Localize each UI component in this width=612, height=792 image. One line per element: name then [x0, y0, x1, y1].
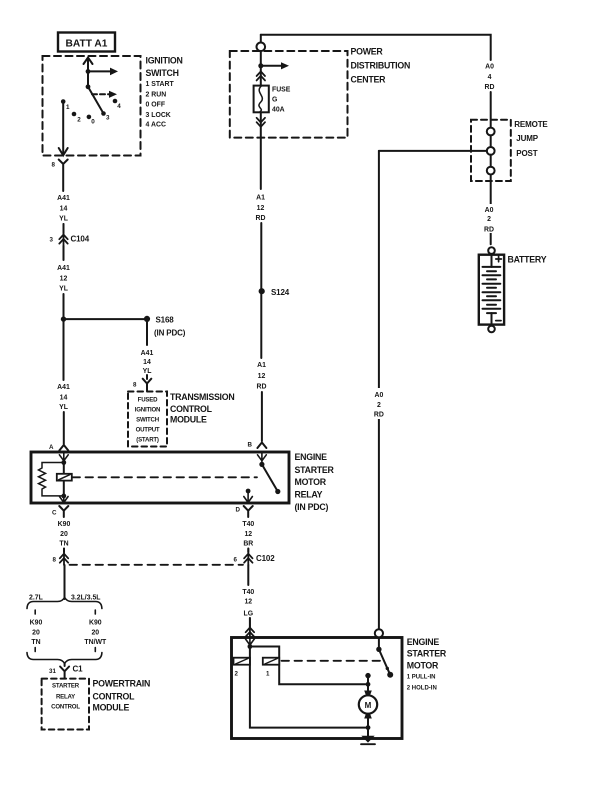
node: coil top junction — [61, 460, 66, 465]
resistor (relay shunt) — [39, 463, 64, 496]
svg-text:YL: YL — [59, 404, 68, 411]
svg-text:8: 8 — [53, 557, 57, 564]
contact 1 — [61, 99, 66, 104]
wire: junction to pull-in winding — [250, 647, 366, 685]
relay pin C exit arrow — [60, 496, 69, 503]
starter switch arm — [379, 649, 390, 675]
wire label A41 14 YL (lower) — [57, 384, 70, 411]
svg-text:1: 1 — [266, 671, 270, 678]
wire through fuse connectors — [260, 66, 262, 86]
relay pin B entry arrow — [258, 453, 267, 465]
svg-text:(START): (START) — [136, 437, 159, 444]
node: motor ground junction — [366, 725, 371, 730]
pull-in winding 1 — [263, 658, 279, 665]
svg-text:A41: A41 — [57, 195, 70, 202]
svg-text:RD: RD — [484, 226, 494, 233]
svg-text:14: 14 — [143, 359, 151, 366]
node: switch feed junction — [86, 69, 91, 74]
svg-text:CONTROL: CONTROL — [170, 404, 213, 414]
svg-text:2: 2 — [377, 402, 381, 409]
connector chevrons at starter motor — [249, 618, 251, 637]
arrowhead down at box edge — [59, 148, 68, 155]
svg-text:M: M — [365, 701, 372, 710]
battery internal top lead — [491, 254, 493, 267]
svg-text:20: 20 — [60, 531, 68, 538]
svg-text:12: 12 — [244, 599, 252, 606]
wire into C102 left half — [63, 549, 65, 553]
wire: branch arrow right — [261, 65, 282, 67]
svg-text:A41: A41 — [57, 384, 70, 391]
connector Y at relay A — [59, 445, 68, 451]
ground G1 — [361, 736, 374, 743]
node: splice to S168 — [61, 316, 66, 321]
svg-text:2 HOLD-IN: 2 HOLD-IN — [407, 686, 437, 692]
dashed armature link — [73, 476, 258, 478]
svg-text:A1: A1 — [256, 195, 265, 202]
contact position labels — [66, 103, 121, 126]
wire: battery stud into switch — [378, 637, 380, 649]
relay pin A entry arrow — [59, 453, 68, 463]
engine split bottom brace — [27, 653, 102, 664]
svg-text:DISTRIBUTION: DISTRIBUTION — [351, 61, 411, 71]
connector C102 pin 8 chevrons — [63, 549, 65, 566]
svg-text:RD: RD — [256, 215, 266, 222]
svg-text:1 START: 1 START — [146, 81, 175, 88]
svg-text:TN: TN — [59, 541, 68, 548]
remote jump post dashed box — [471, 120, 511, 181]
jump post label — [514, 120, 548, 158]
wire: motor to ground — [367, 719, 369, 739]
svg-text:1 PULL-IN: 1 PULL-IN — [407, 675, 436, 681]
wire label A41 12 YL — [57, 265, 70, 293]
svg-text:A0: A0 — [374, 392, 383, 399]
hold-in winding 2 — [234, 658, 250, 665]
wire: down to remote jump post — [490, 92, 492, 128]
svg-text:14: 14 — [60, 205, 68, 212]
svg-text:BATTERY: BATTERY — [508, 254, 547, 264]
contact 4 — [113, 99, 118, 104]
svg-text:FUSE: FUSE — [272, 87, 291, 94]
BATT A1 feed box — [58, 33, 115, 52]
connector 8 at TCM — [143, 379, 152, 391]
wire label A0 4 RD — [485, 64, 495, 92]
svg-text:RD: RD — [374, 412, 384, 419]
svg-text:MOTOR: MOTOR — [295, 477, 327, 487]
svg-text:(IN PDC): (IN PDC) — [295, 502, 329, 512]
node: motor terminal upper — [365, 673, 370, 678]
svg-text:CONTROL: CONTROL — [93, 691, 136, 701]
svg-text:LG: LG — [244, 611, 254, 618]
relay pin D exit arrow — [244, 491, 253, 503]
svg-text:4: 4 — [117, 103, 121, 110]
svg-text:20: 20 — [91, 630, 99, 637]
svg-text:K90: K90 — [58, 521, 71, 528]
connector Y below relay D — [244, 506, 253, 517]
svg-text:A41: A41 — [141, 350, 154, 357]
svg-text:2: 2 — [487, 216, 491, 223]
svg-text:2.7L: 2.7L — [29, 595, 43, 602]
wire label T40 12 BR — [242, 521, 254, 548]
svg-text:12: 12 — [257, 205, 265, 212]
svg-text:BATT A1: BATT A1 — [66, 39, 108, 50]
node S168 — [144, 316, 150, 322]
svg-text:14: 14 — [60, 394, 68, 401]
svg-text:T40: T40 — [242, 589, 254, 596]
svg-text:SWITCH: SWITCH — [136, 417, 159, 424]
transmission control module dashed box — [128, 392, 167, 447]
wire: C102 down to starter — [247, 565, 249, 585]
C102 connector dashed joint line — [70, 564, 244, 566]
wire: down to relay terminal B — [261, 392, 263, 441]
svg-text:ENGINE: ENGINE — [295, 452, 328, 462]
node: relay switch pivot — [259, 462, 264, 467]
PCM circuit function text — [51, 683, 80, 711]
svg-text:31: 31 — [49, 668, 56, 675]
svg-text:G: G — [272, 97, 277, 104]
wire: top feed from PDC to right column — [261, 35, 491, 60]
ignition switch S1 dashed box — [43, 56, 141, 156]
engine split top brace — [27, 597, 102, 608]
connector Y at relay B — [257, 443, 266, 449]
svg-text:YL: YL — [59, 286, 68, 293]
svg-text:SWITCH: SWITCH — [146, 68, 179, 78]
svg-text:FUSED: FUSED — [138, 397, 158, 404]
svg-text:A1: A1 — [257, 362, 266, 369]
svg-text:TN/WT: TN/WT — [84, 639, 107, 646]
svg-text:12: 12 — [244, 531, 252, 538]
svg-text:2: 2 — [77, 117, 81, 124]
connector C104 double chevron — [63, 224, 65, 246]
svg-text:STARTER: STARTER — [407, 649, 447, 659]
svg-text:3 LOCK: 3 LOCK — [146, 112, 171, 119]
wire between studs — [490, 135, 492, 147]
svg-text:RD: RD — [485, 84, 495, 91]
svg-text:8: 8 — [52, 162, 56, 169]
TCM label — [170, 392, 234, 425]
wire: down to relay terminal A — [63, 412, 65, 444]
node: relay switch arm end — [275, 489, 280, 494]
contact 3 — [101, 111, 106, 116]
jump post stud 1 — [487, 128, 495, 136]
branch stub dashes (top) — [35, 610, 95, 614]
svg-text:MOTOR: MOTOR — [407, 661, 439, 671]
svg-text:MODULE: MODULE — [93, 702, 130, 712]
svg-text:(IN PDC): (IN PDC) — [154, 329, 186, 338]
svg-text:T40: T40 — [242, 521, 254, 528]
wire: circle to fuse node — [260, 51, 262, 66]
svg-text:4 ACC: 4 ACC — [146, 122, 166, 129]
motor M1 — [359, 695, 377, 713]
node: relay pin D contact — [246, 489, 251, 494]
connector C102 pin 6 chevrons — [247, 549, 249, 566]
node: motor terminal lower — [366, 682, 371, 687]
svg-text:JUMP: JUMP — [516, 134, 538, 143]
dashed ACC arrow — [92, 93, 110, 95]
svg-text:A: A — [49, 444, 54, 451]
node: switch wiper pivot — [86, 84, 91, 89]
svg-text:POWER: POWER — [351, 47, 384, 57]
powertrain control module dashed box — [42, 679, 89, 730]
wire label K90 20 TN/WT (3.2L/3.5L) — [84, 620, 107, 646]
wire segment above C104 — [63, 224, 65, 233]
svg-text:MODULE: MODULE — [170, 415, 207, 425]
svg-text:8: 8 — [133, 382, 137, 389]
svg-text:IGNITION: IGNITION — [146, 56, 183, 66]
svg-text:POST: POST — [516, 149, 537, 158]
svg-text:S124: S124 — [271, 288, 290, 297]
svg-text:1: 1 — [66, 104, 70, 111]
wire: C102 down to engine split — [64, 565, 66, 599]
motor brush upper — [364, 691, 372, 697]
svg-text:A0: A0 — [485, 64, 494, 71]
wire: battery feed stub above PDC — [260, 35, 262, 43]
arrowhead up at BATT A1 — [84, 58, 93, 65]
svg-text:YL: YL — [143, 368, 152, 375]
battery plus mark — [496, 256, 502, 262]
wire: down to splice junction — [63, 294, 65, 380]
relay label — [295, 452, 335, 512]
battery internal bottom lead — [491, 313, 493, 325]
node S124 — [259, 288, 265, 294]
svg-text:TRANSMISSION: TRANSMISSION — [170, 392, 234, 402]
wire label A41 14 YL (TCM branch) — [141, 350, 154, 375]
terminal circle on starter box top — [375, 629, 383, 637]
wire label K90 20 TN — [58, 521, 71, 548]
battery negative terminal circle — [488, 326, 495, 333]
connector C1 pin 31 — [60, 667, 69, 678]
battery case — [479, 255, 504, 325]
svg-text:REMOTE: REMOTE — [514, 120, 548, 129]
svg-text:K90: K90 — [89, 620, 102, 627]
PCM label — [93, 678, 151, 712]
node: starter switch pivot — [376, 647, 381, 652]
wire: splice branch to S168 — [64, 318, 148, 320]
node: starter switch contact — [387, 672, 393, 678]
wire: starter feed down — [378, 151, 380, 630]
svg-text:6: 6 — [234, 557, 238, 564]
battery positive terminal circle — [488, 247, 495, 254]
wire label A0 2 RD (starter feed) — [371, 388, 387, 419]
connector 8 (ignition switch) — [59, 160, 68, 192]
starter motor label — [407, 637, 447, 692]
dashed solenoid plunger link — [282, 660, 383, 662]
ignition switch label — [146, 56, 183, 129]
svg-text:OUTPUT: OUTPUT — [136, 427, 160, 434]
power distribution center dashed box — [230, 51, 348, 138]
contact 2 — [72, 112, 77, 117]
svg-text:0: 0 — [91, 119, 95, 126]
battery minus mark — [496, 320, 501, 322]
svg-text:STARTER: STARTER — [52, 683, 80, 690]
wire label A1 12 RD (lower) — [257, 362, 267, 391]
wire: junction through hold-in winding down — [250, 647, 366, 728]
wire into C102 right half — [247, 549, 249, 553]
svg-text:BR: BR — [243, 541, 253, 548]
svg-text:2 RUN: 2 RUN — [146, 91, 167, 98]
battery plates — [483, 267, 501, 313]
svg-text:C102: C102 — [256, 554, 275, 563]
svg-text:3: 3 — [106, 115, 110, 122]
wire: stud to battery — [490, 175, 492, 245]
wire label A41 14 YL — [57, 195, 70, 223]
svg-text:CONTROL: CONTROL — [51, 704, 80, 711]
wire: RUN output arrow — [88, 70, 111, 72]
wire: merge down to C1 — [64, 664, 66, 666]
PDC label — [351, 47, 411, 85]
svg-text:3: 3 — [50, 237, 54, 244]
svg-text:C: C — [52, 510, 57, 517]
wire into starter connector — [249, 618, 251, 628]
svg-text:RD: RD — [257, 384, 267, 391]
connector Y below relay C — [59, 506, 68, 517]
wire: down to S124 — [260, 223, 262, 358]
svg-text:12: 12 — [60, 276, 68, 283]
svg-text:K90: K90 — [30, 620, 43, 627]
motor brush lower — [364, 713, 372, 719]
node: winding feed junction — [248, 644, 253, 649]
terminal circle at PDC top — [257, 43, 266, 52]
wire: motor terminal to brush — [367, 676, 369, 691]
svg-text:YL: YL — [59, 216, 68, 223]
fuse G 40A — [254, 86, 269, 113]
contact 0 — [87, 115, 92, 120]
svg-text:A0: A0 — [485, 207, 494, 214]
svg-text:ENGINE: ENGINE — [407, 637, 440, 647]
wire: fuse output down to relay B — [260, 112, 262, 189]
wire: into TCM connector — [146, 375, 148, 379]
wire label A1 12 RD — [256, 195, 266, 223]
branch stub dashes (bottom) — [35, 648, 95, 652]
svg-text:S168: S168 — [156, 316, 175, 325]
wire: jump post stud 2 to starter feed — [379, 150, 487, 152]
svg-text:2: 2 — [235, 671, 239, 678]
svg-text:4: 4 — [488, 74, 492, 81]
relay coil K1 — [63, 463, 65, 496]
svg-text:40A: 40A — [272, 107, 285, 114]
svg-text:0 OFF: 0 OFF — [146, 102, 166, 109]
svg-text:IGNITION: IGNITION — [135, 407, 160, 414]
svg-text:TN: TN — [31, 639, 40, 646]
svg-text:RELAY: RELAY — [295, 490, 323, 500]
svg-text:20: 20 — [32, 630, 40, 637]
svg-text:POWERTRAIN: POWERTRAIN — [93, 678, 151, 688]
svg-text:C1: C1 — [73, 665, 84, 674]
connector chevrons above fuse — [257, 71, 265, 80]
wire label K90 20 TN (2.7L) — [30, 620, 43, 646]
svg-text:D: D — [236, 507, 241, 514]
engine starter motor relay box — [31, 452, 289, 503]
engine starter motor box — [232, 638, 403, 739]
svg-text:C104: C104 — [71, 235, 90, 244]
wire: switch common feed to BATT A1 — [87, 58, 89, 87]
wire between studs — [490, 155, 492, 167]
starter feed entry arrow — [246, 638, 255, 646]
connector chevrons below fuse — [257, 118, 265, 127]
svg-text:A41: A41 — [57, 265, 70, 272]
relay switch arm — [262, 464, 278, 491]
TCM circuit function text — [135, 397, 160, 444]
svg-text:B: B — [248, 442, 253, 449]
wire: S168 down to TCM — [146, 322, 148, 345]
svg-text:CENTER: CENTER — [351, 75, 387, 85]
svg-text:RELAY: RELAY — [56, 693, 75, 700]
wire label A0 2 RD — [482, 204, 497, 233]
switch wiper arm to START contact — [88, 87, 104, 114]
jump post stud 2 — [487, 147, 495, 155]
node: fuse feed junction — [258, 63, 263, 68]
jump post stud 3 — [487, 167, 495, 175]
svg-text:STARTER: STARTER — [295, 465, 335, 475]
svg-text:3.2L/3.5L: 3.2L/3.5L — [71, 595, 101, 602]
wire segment below C104 — [63, 246, 65, 260]
node: coil bottom junction — [61, 494, 66, 499]
svg-text:12: 12 — [258, 373, 266, 380]
node: starter switch mid bead — [386, 667, 389, 670]
wire label T40 12 LG — [242, 589, 254, 618]
wire: contact 1 down to connector — [62, 104, 64, 154]
